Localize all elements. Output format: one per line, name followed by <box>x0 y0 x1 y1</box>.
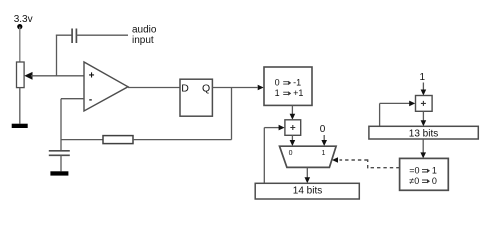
arrowhead into 14 bits register <box>305 177 311 183</box>
wire counter feedback vertical (13 bits to adder B) <box>379 103 381 126</box>
wire mux output to 14 bits register <box>306 167 308 178</box>
svg-text:1: 1 <box>321 150 325 157</box>
svg-text:≠0: ≠0 <box>409 176 419 186</box>
wire accumulator feedback vertical (14 bits to adder A) <box>263 128 265 184</box>
node dot (3.3v rail) <box>17 24 22 29</box>
svg-text:input: input <box>132 35 154 46</box>
adder B box <box>416 96 433 112</box>
adder A plus sign <box>290 125 295 130</box>
wire feedback node to resistor left lead <box>61 139 103 141</box>
adder B plus sign <box>421 101 426 106</box>
svg-text:-1: -1 <box>293 78 301 88</box>
dashed select wire vertical jog <box>367 159 369 168</box>
arrowhead into adder B left <box>409 101 415 107</box>
svg-text:1: 1 <box>420 72 426 83</box>
svg-text:+: + <box>89 71 95 82</box>
svg-text:D: D <box>181 83 189 95</box>
svg-text:3.3v: 3.3v <box>14 14 33 25</box>
wiper arrowhead into potentiometer <box>24 72 32 80</box>
converter box (0 to -1, 1 to +1) <box>264 67 312 105</box>
wire op-amp output to flip-flop D input <box>128 87 180 89</box>
arrowhead into mux port 1 <box>321 140 327 146</box>
wire adder A to mux port 0 <box>291 135 293 141</box>
wire 3.3v dot to potentiometer top <box>19 27 21 62</box>
wire counter feedback horizontal into adder B <box>380 102 410 104</box>
comparator box (=0 to 1, not 0 to 0) <box>400 158 449 190</box>
svg-text:+1: +1 <box>293 88 303 98</box>
op-amp U1 body <box>84 62 128 111</box>
wire op-amp inverting input <box>61 98 84 100</box>
wire audio branch vertical (cap to + input tee) <box>56 35 58 76</box>
svg-text:1: 1 <box>432 166 437 176</box>
dashed select wire horizontal from comparator <box>368 167 400 169</box>
wire 13 bits register to comparator <box>422 139 424 153</box>
svg-text:0: 0 <box>320 124 326 135</box>
svg-text:13 bits: 13 bits <box>409 128 438 139</box>
svg-text:=0: =0 <box>409 166 419 176</box>
wire wiper to op-amp non-inverting input <box>31 75 84 77</box>
svg-text:-: - <box>89 95 92 106</box>
resistor R2 (feedback) body <box>103 136 133 144</box>
ground (below potentiometer) <box>12 124 28 128</box>
wire resistor right lead to feedback tap <box>133 139 232 141</box>
capacitor C1 (audio coupling) plates <box>72 29 76 44</box>
wire capacitor C2 to ground <box>60 155 62 171</box>
svg-text:14 bits: 14 bits <box>293 186 322 197</box>
arrowhead select into mux <box>332 157 338 163</box>
svg-text:0: 0 <box>289 150 293 157</box>
arrowhead into adder B top <box>421 90 427 96</box>
svg-text:0: 0 <box>432 176 437 186</box>
arrowhead into adder A top <box>290 114 296 120</box>
wire potentiometer bottom to ground <box>19 88 21 124</box>
adder A box <box>285 120 301 136</box>
arrowhead into 13 bits register <box>421 120 427 126</box>
wire cap left lead <box>56 34 72 36</box>
ground (below C2) <box>50 171 68 175</box>
wire cap right lead to audio input label <box>76 34 128 36</box>
wire Q output to converter box <box>212 87 257 89</box>
svg-text:Q: Q <box>202 83 210 95</box>
register 14 bits box <box>255 183 359 199</box>
multiplexer body <box>280 146 337 167</box>
wire converter box to adder A <box>291 105 293 114</box>
register 13 bits box <box>369 126 478 139</box>
arrowhead into mux port 0 <box>290 140 296 146</box>
svg-text:0: 0 <box>275 78 280 88</box>
wire inverting input down to integrator node <box>60 99 62 151</box>
flip-flop U2 body <box>180 79 212 116</box>
capacitor C2 (integrator) plates <box>49 151 70 156</box>
dashed select wire horizontal into mux <box>340 159 368 161</box>
arrowhead into comparator box <box>420 152 426 158</box>
wire constant 1 to adder B <box>422 83 424 91</box>
arrowhead into converter box <box>258 85 264 91</box>
wire adder B to 13 bits register <box>422 111 424 121</box>
wire accumulator feedback horizontal into adder A <box>264 127 279 129</box>
potentiometer R1 body <box>17 62 25 88</box>
svg-text:1: 1 <box>275 88 280 98</box>
wire feedback vertical from Q output <box>231 88 233 140</box>
wire constant 0 to mux port 1 <box>323 135 325 141</box>
arrowhead into adder A left <box>279 125 285 131</box>
